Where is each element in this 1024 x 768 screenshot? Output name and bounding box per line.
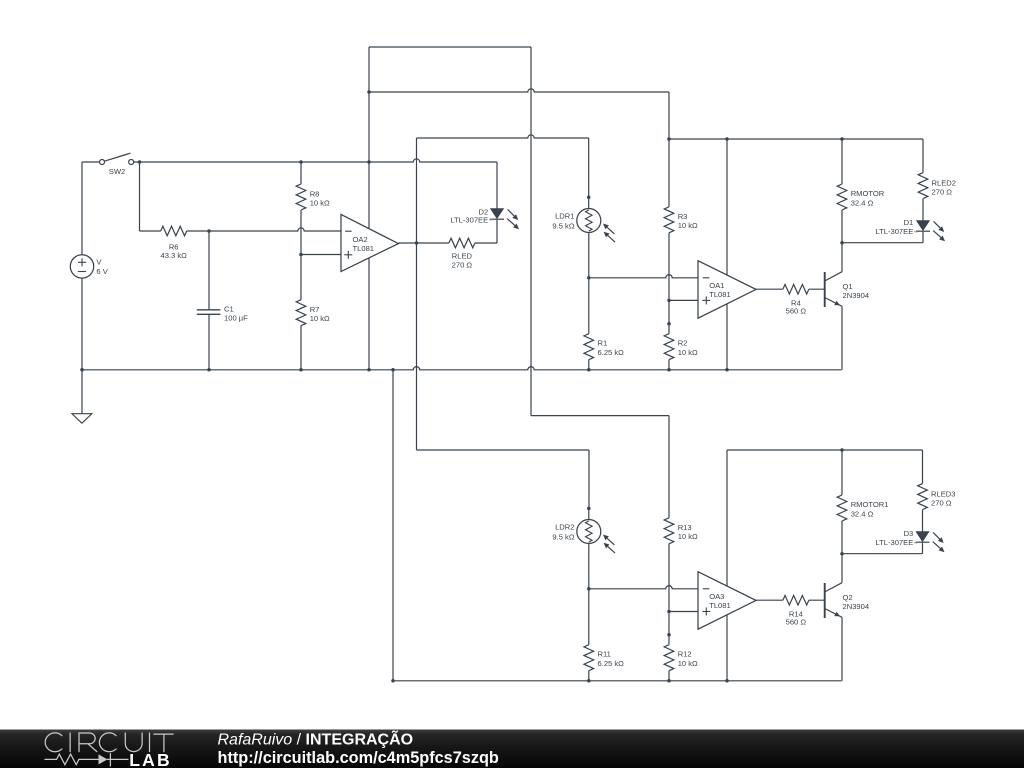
svg-text:RLED: RLED [452, 251, 473, 260]
svg-text:R1: R1 [598, 339, 608, 348]
svg-text:2N3904: 2N3904 [843, 291, 870, 300]
svg-text:Q1: Q1 [843, 282, 853, 291]
svg-text:LTL-307EE: LTL-307EE [875, 227, 913, 236]
svg-text:R2: R2 [678, 339, 688, 348]
svg-text:D1: D1 [904, 218, 914, 227]
svg-text:R7: R7 [310, 305, 320, 314]
svg-text:Q2: Q2 [843, 593, 853, 602]
svg-text:RafaRuivo / INTEGRAÇÃO: RafaRuivo / INTEGRAÇÃO [218, 728, 414, 748]
svg-text:270 Ω: 270 Ω [452, 261, 473, 270]
svg-text:C1: C1 [224, 304, 234, 313]
svg-text:RMOTOR1: RMOTOR1 [851, 500, 889, 509]
svg-text:270 Ω: 270 Ω [931, 499, 952, 508]
svg-text:10 kΩ: 10 kΩ [678, 348, 698, 357]
svg-text:R3: R3 [678, 212, 688, 221]
svg-text:9.5 kΩ: 9.5 kΩ [552, 222, 574, 231]
svg-text:LDR2: LDR2 [555, 523, 574, 532]
svg-text:270 Ω: 270 Ω [932, 188, 953, 197]
svg-text:OA1: OA1 [709, 281, 724, 290]
svg-text:32.4 Ω: 32.4 Ω [851, 198, 874, 207]
svg-text:TL081: TL081 [709, 601, 731, 610]
svg-text:2N3904: 2N3904 [843, 602, 870, 611]
svg-text:SW2: SW2 [109, 167, 125, 176]
svg-text:OA3: OA3 [709, 592, 724, 601]
svg-text:R6: R6 [169, 242, 179, 251]
svg-text:560 Ω: 560 Ω [786, 618, 807, 627]
svg-text:10 kΩ: 10 kΩ [678, 659, 698, 668]
svg-text:10 kΩ: 10 kΩ [678, 221, 698, 230]
svg-text:R12: R12 [678, 650, 692, 659]
svg-text:OA2: OA2 [353, 235, 368, 244]
svg-text:D3: D3 [904, 529, 914, 538]
svg-text:100 µF: 100 µF [224, 314, 248, 323]
svg-text:RLED2: RLED2 [932, 178, 956, 187]
svg-text:LDR1: LDR1 [555, 212, 574, 221]
svg-text:43.3 kΩ: 43.3 kΩ [161, 251, 188, 260]
svg-text:RLED3: RLED3 [931, 489, 955, 498]
svg-text:LTL-307EE: LTL-307EE [875, 538, 913, 547]
svg-text:http://circuitlab.com/c4m5pfcs: http://circuitlab.com/c4m5pfcs7szqb [218, 749, 499, 767]
svg-text:32.4 Ω: 32.4 Ω [851, 509, 874, 518]
svg-text:R8: R8 [310, 189, 320, 198]
svg-text:6.25 kΩ: 6.25 kΩ [598, 659, 625, 668]
svg-text:TL081: TL081 [709, 290, 731, 299]
svg-text:9.5 kΩ: 9.5 kΩ [552, 533, 574, 542]
svg-text:R11: R11 [598, 650, 611, 659]
svg-text:6.25 kΩ: 6.25 kΩ [598, 348, 625, 357]
svg-text:RMOTOR: RMOTOR [851, 189, 885, 198]
svg-text:LTL-307EE: LTL-307EE [450, 216, 488, 225]
svg-text:560 Ω: 560 Ω [786, 307, 807, 316]
svg-text:10 kΩ: 10 kΩ [310, 314, 330, 323]
svg-text:10 kΩ: 10 kΩ [678, 532, 698, 541]
svg-text:10 kΩ: 10 kΩ [310, 199, 330, 208]
svg-text:TL081: TL081 [353, 244, 375, 253]
svg-text:LAB: LAB [129, 750, 172, 768]
svg-text:R13: R13 [678, 523, 692, 532]
svg-text:6 V: 6 V [96, 267, 108, 276]
